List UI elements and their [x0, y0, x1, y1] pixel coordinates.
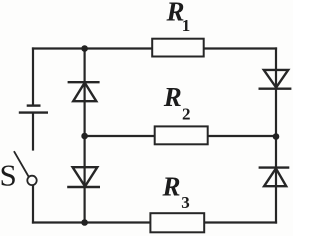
battery cell	[20, 106, 47, 113]
label R2	[163, 82, 191, 123]
wire left upper vertical (top rail to battery)	[32, 49, 34, 105]
svg-text:S: S	[0, 158, 17, 193]
wire right vertical branch	[275, 49, 277, 223]
wire middle rail	[85, 135, 276, 137]
label S (switch)	[0, 158, 17, 193]
wire top rail	[33, 47, 276, 49]
wire switch to bottom rail	[32, 186, 34, 223]
label R3	[162, 172, 190, 213]
diode D3 right-top (cathode down)	[260, 70, 291, 89]
label R1	[166, 0, 191, 35]
wire bottom rail	[33, 221, 276, 223]
node junction bottom-left	[81, 219, 88, 226]
svg-text:2: 2	[182, 104, 191, 123]
svg-text:1: 1	[182, 16, 191, 35]
wire left diode branch vertical	[83, 49, 85, 223]
resistor R1	[152, 39, 204, 57]
svg-text:R: R	[162, 172, 181, 202]
node junction top-left	[81, 45, 88, 52]
svg-text:R: R	[163, 82, 182, 112]
resistor R3	[150, 213, 204, 232]
switch S blade	[14, 152, 28, 177]
diode D4 right-bottom (cathode up)	[260, 168, 288, 187]
wire battery to switch	[32, 114, 34, 150]
diode D1 left-top (cathode up)	[69, 82, 99, 101]
resistor R2	[155, 126, 208, 144]
diode D2 left-bottom (cathode down)	[68, 167, 98, 187]
node junction middle-right	[273, 133, 280, 140]
switch S contact circle	[27, 176, 36, 185]
svg-text:3: 3	[181, 193, 190, 212]
node junction middle-left	[81, 133, 88, 140]
